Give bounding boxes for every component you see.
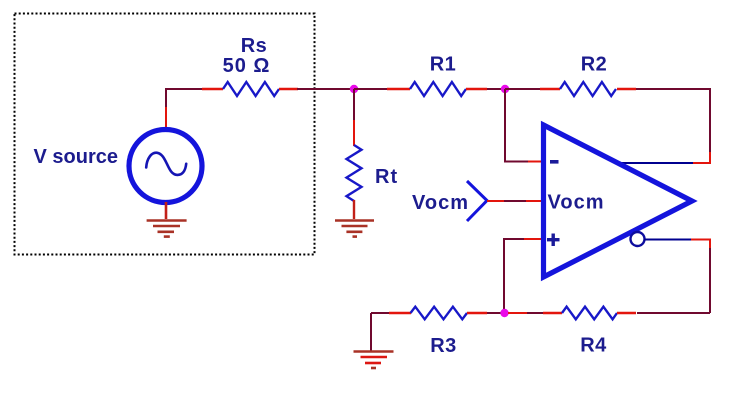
wire node A to R1 xyxy=(354,88,388,90)
svg-text:Vocm: Vocm xyxy=(548,192,605,214)
ground for Rt xyxy=(335,221,374,237)
wire node B to R2 xyxy=(505,88,541,90)
ground for R3 xyxy=(354,313,394,368)
wire node A to Rt xyxy=(353,89,355,146)
label 50 Ohm xyxy=(223,55,271,77)
ground for Vsource xyxy=(147,221,187,237)
svg-text:Rt: Rt xyxy=(375,166,398,188)
label Rs xyxy=(241,35,268,57)
wire U1 inverting output to R4 xyxy=(644,240,710,314)
resistor Rt xyxy=(347,145,362,219)
resistor R2 xyxy=(540,82,636,96)
node A junction xyxy=(350,85,358,93)
svg-text:Rs: Rs xyxy=(241,35,268,57)
wire Vocm terminal to U1 xyxy=(487,200,542,202)
resistor Rs xyxy=(202,82,298,96)
node B junction xyxy=(501,85,509,93)
svg-text:R2: R2 xyxy=(581,53,608,75)
source enclosure dashed box xyxy=(15,14,315,255)
wire Vsource to Rs xyxy=(166,89,205,128)
op-amp U1 xyxy=(544,125,693,277)
wire ground to R3 xyxy=(371,312,390,314)
label plus input xyxy=(547,234,560,247)
label R1 xyxy=(430,54,457,76)
svg-text:R4: R4 xyxy=(580,335,607,357)
label minus input xyxy=(550,160,559,164)
Vocm input terminal chevron xyxy=(467,181,487,221)
label Vocm left xyxy=(412,192,469,214)
node C junction xyxy=(500,309,508,317)
svg-text:50 Ω: 50 Ω xyxy=(223,55,271,77)
wire R3 to node C xyxy=(487,312,505,314)
label R3 xyxy=(430,335,457,357)
label Vocm pin xyxy=(548,192,605,214)
wire node C to R4 xyxy=(508,312,546,314)
output bubble inverting output xyxy=(631,232,645,246)
svg-text:R1: R1 xyxy=(430,54,457,76)
resistor R1 xyxy=(387,82,487,96)
wire R4 to U1 output corner xyxy=(637,312,710,314)
label Rt xyxy=(375,166,398,188)
wire Vsource bottom lead xyxy=(165,202,168,219)
svg-text:V source: V source xyxy=(34,146,118,168)
wire U1 noninverting input to node C xyxy=(504,239,542,313)
svg-text:Vocm: Vocm xyxy=(412,192,469,214)
voltage source V1 Vsource xyxy=(129,130,202,203)
label Vsource xyxy=(34,146,118,168)
wire R1 to node B xyxy=(487,88,505,90)
resistor R3 xyxy=(389,307,487,320)
label R2 xyxy=(581,53,608,75)
wire Rs to node A xyxy=(297,88,354,90)
svg-text:R3: R3 xyxy=(430,335,457,357)
resistor R4 xyxy=(543,307,636,320)
label R4 xyxy=(580,335,607,357)
wire R2 to U1 top output feedback xyxy=(621,89,710,163)
wire node B to U1 inverting input xyxy=(505,89,542,162)
